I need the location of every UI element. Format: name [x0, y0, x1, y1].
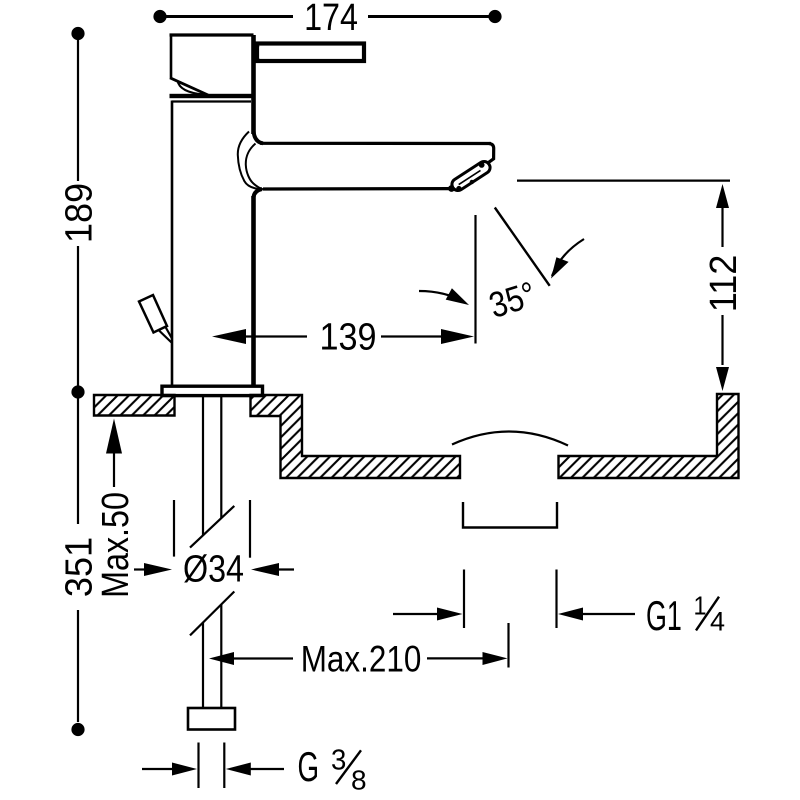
svg-text:174: 174	[304, 0, 358, 39]
svg-text:35°: 35°	[485, 275, 541, 327]
svg-text:189: 189	[57, 183, 100, 243]
svg-text:112: 112	[701, 255, 744, 313]
svg-text:G: G	[298, 743, 320, 790]
svg-text:Max.50: Max.50	[95, 492, 137, 598]
svg-text:4: 4	[710, 607, 725, 637]
svg-text:3: 3	[331, 743, 346, 776]
svg-text:139: 139	[319, 315, 376, 358]
svg-text:Ø34: Ø34	[183, 548, 244, 590]
svg-text:351: 351	[57, 537, 100, 597]
svg-text:8: 8	[351, 764, 367, 795]
svg-text:G1: G1	[646, 593, 682, 639]
svg-text:Max.210: Max.210	[301, 639, 422, 680]
